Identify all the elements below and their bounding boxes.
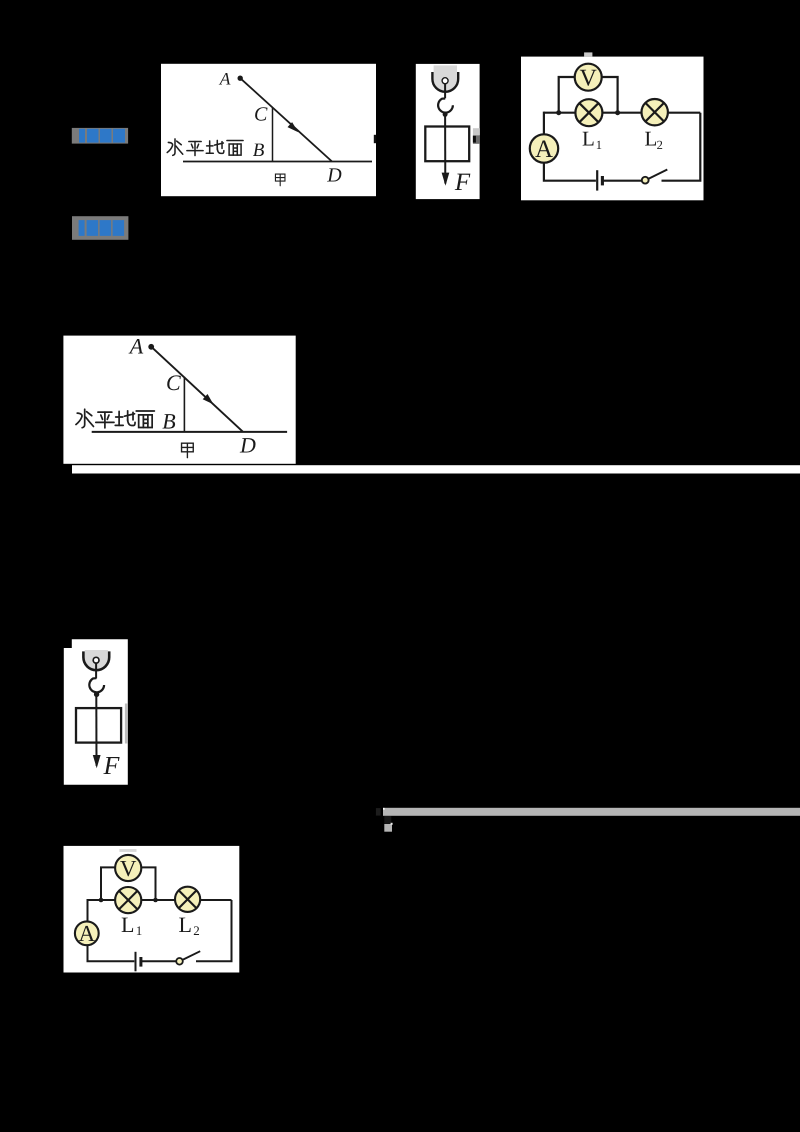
hanger eye circle bbox=[442, 78, 448, 84]
gray tab above circuit-1 bbox=[584, 52, 592, 56]
gray dash inside top bbox=[119, 849, 136, 852]
svg-text:L: L bbox=[645, 127, 658, 151]
svg-text:V: V bbox=[580, 66, 598, 92]
switch pivot bbox=[642, 177, 649, 184]
ammeter A bbox=[530, 134, 558, 163]
gray fragment dark (right of hook panel) bbox=[473, 135, 480, 144]
panel circuit-1 background bbox=[521, 57, 704, 201]
hanger cup gray fill bbox=[85, 650, 108, 669]
svg-text:F: F bbox=[454, 169, 471, 196]
point A dot bbox=[148, 344, 154, 350]
wire eye to hook bbox=[444, 84, 446, 98]
arrowhead F bbox=[93, 755, 101, 768]
panel hook-1 background bbox=[416, 64, 480, 199]
main wire (node between L1 and L2) bbox=[88, 899, 232, 901]
ground line (horizontal ground) bbox=[183, 161, 372, 163]
gray strip inside right edge bbox=[125, 704, 128, 744]
ray arrowhead bbox=[288, 122, 299, 132]
white speck near gray square bbox=[391, 823, 393, 825]
lamp L2 bbox=[642, 99, 668, 125]
svg-text:1: 1 bbox=[136, 923, 143, 938]
white speck at band start bbox=[383, 808, 385, 810]
svg-text:2: 2 bbox=[193, 923, 200, 938]
ray AD wire bbox=[153, 348, 243, 432]
svg-text:C: C bbox=[166, 370, 181, 395]
force line wire bbox=[95, 694, 97, 766]
clipped glyph at panel right edge bbox=[374, 135, 376, 143]
main wire (node between L1 and L2) bbox=[544, 112, 700, 114]
segment CB wire bbox=[183, 377, 185, 432]
svg-text:A: A bbox=[78, 921, 95, 946]
svg-text:V: V bbox=[120, 856, 137, 881]
svg-text:L: L bbox=[121, 912, 134, 937]
hanger cup bbox=[83, 651, 109, 670]
junction dot left bbox=[556, 110, 561, 115]
dark glyph fragment below band bbox=[384, 816, 391, 823]
label L2 bbox=[179, 912, 200, 938]
text 甲 bbox=[275, 174, 285, 186]
selected text row (gray band) bbox=[383, 808, 800, 816]
tag box 2 (blue label on gray) bbox=[72, 216, 128, 240]
svg-text:F: F bbox=[103, 751, 121, 780]
svg-text:L: L bbox=[179, 912, 192, 937]
arrowhead F bbox=[442, 173, 450, 186]
svg-text:A: A bbox=[219, 69, 231, 89]
text 水平地面 bbox=[167, 139, 243, 156]
hook bbox=[438, 99, 453, 113]
left branch wire to ammeter bbox=[87, 899, 89, 922]
switch lever bbox=[648, 170, 667, 179]
svg-text:C: C bbox=[254, 104, 268, 126]
black glyph fragment bbox=[473, 136, 476, 143]
block (weight) bbox=[76, 708, 121, 743]
lamp L1 bbox=[115, 887, 141, 913]
wire switch to right bbox=[196, 900, 232, 961]
lamp L1 bbox=[575, 99, 602, 126]
hook bbox=[89, 678, 104, 692]
svg-text:B: B bbox=[162, 408, 175, 433]
voltmeter branch wire bbox=[559, 77, 618, 113]
label L1 bbox=[582, 127, 602, 153]
selected text row (white band) bbox=[72, 465, 800, 473]
voltmeter branch wire bbox=[101, 867, 156, 900]
voltmeter V bbox=[575, 64, 602, 92]
hook knot dot bbox=[443, 112, 448, 117]
point A dot bbox=[238, 76, 243, 81]
dark glyph fragment left of band bbox=[376, 808, 381, 816]
battery short plate bbox=[139, 957, 142, 967]
svg-text:2: 2 bbox=[657, 138, 663, 152]
svg-text:L: L bbox=[582, 127, 595, 151]
svg-text:D: D bbox=[326, 164, 342, 186]
gray square fragment bbox=[384, 824, 392, 832]
wire battery to switch bbox=[142, 960, 176, 962]
label L2 bbox=[645, 127, 663, 153]
hanger eye circle bbox=[93, 657, 99, 663]
battery short plate bbox=[601, 176, 604, 185]
ground line (horizontal ground) bbox=[92, 431, 287, 433]
hanger cup gray fill bbox=[434, 65, 457, 90]
label L1 bbox=[121, 912, 142, 938]
panel ray-1 background bbox=[161, 64, 376, 196]
svg-text:A: A bbox=[535, 136, 553, 163]
junction dot left bbox=[99, 898, 104, 903]
hanger cup bbox=[432, 72, 458, 92]
gray fragment light (right of hook panel) bbox=[473, 128, 480, 135]
ray AD wire bbox=[242, 79, 332, 161]
left branch wire to ammeter bbox=[543, 112, 545, 135]
voltmeter V bbox=[115, 855, 141, 881]
wire ammeter to battery bbox=[88, 945, 135, 961]
panel circuit-2 background bbox=[64, 846, 240, 973]
svg-text:B: B bbox=[253, 140, 265, 161]
text 水平地面 bbox=[76, 409, 154, 428]
tag box 1 (blue label on gray) bbox=[72, 128, 128, 144]
text 甲 bbox=[182, 443, 194, 457]
switch lever bbox=[183, 951, 201, 960]
hook knot dot bbox=[94, 692, 99, 697]
svg-text:1: 1 bbox=[596, 138, 602, 152]
svg-text:A: A bbox=[128, 334, 144, 359]
wire battery to switch bbox=[604, 180, 643, 182]
panel hook-2 background bbox=[64, 639, 128, 784]
ammeter A bbox=[75, 921, 99, 946]
switch pivot bbox=[176, 958, 183, 965]
segment CB wire bbox=[272, 108, 274, 162]
panel ray-2 background bbox=[63, 336, 295, 464]
battery long plate bbox=[135, 952, 137, 972]
lamp L2 bbox=[175, 887, 200, 912]
battery long plate bbox=[596, 170, 598, 190]
force line wire bbox=[444, 114, 446, 183]
ray arrowhead bbox=[203, 394, 214, 404]
block (weight) bbox=[425, 127, 469, 162]
wire eye to hook bbox=[95, 663, 97, 678]
junction dot right bbox=[153, 898, 158, 903]
svg-text:D: D bbox=[239, 432, 256, 457]
wire ammeter to battery bbox=[544, 162, 596, 181]
junction dot right bbox=[615, 110, 620, 115]
wire switch to right bbox=[662, 113, 701, 181]
